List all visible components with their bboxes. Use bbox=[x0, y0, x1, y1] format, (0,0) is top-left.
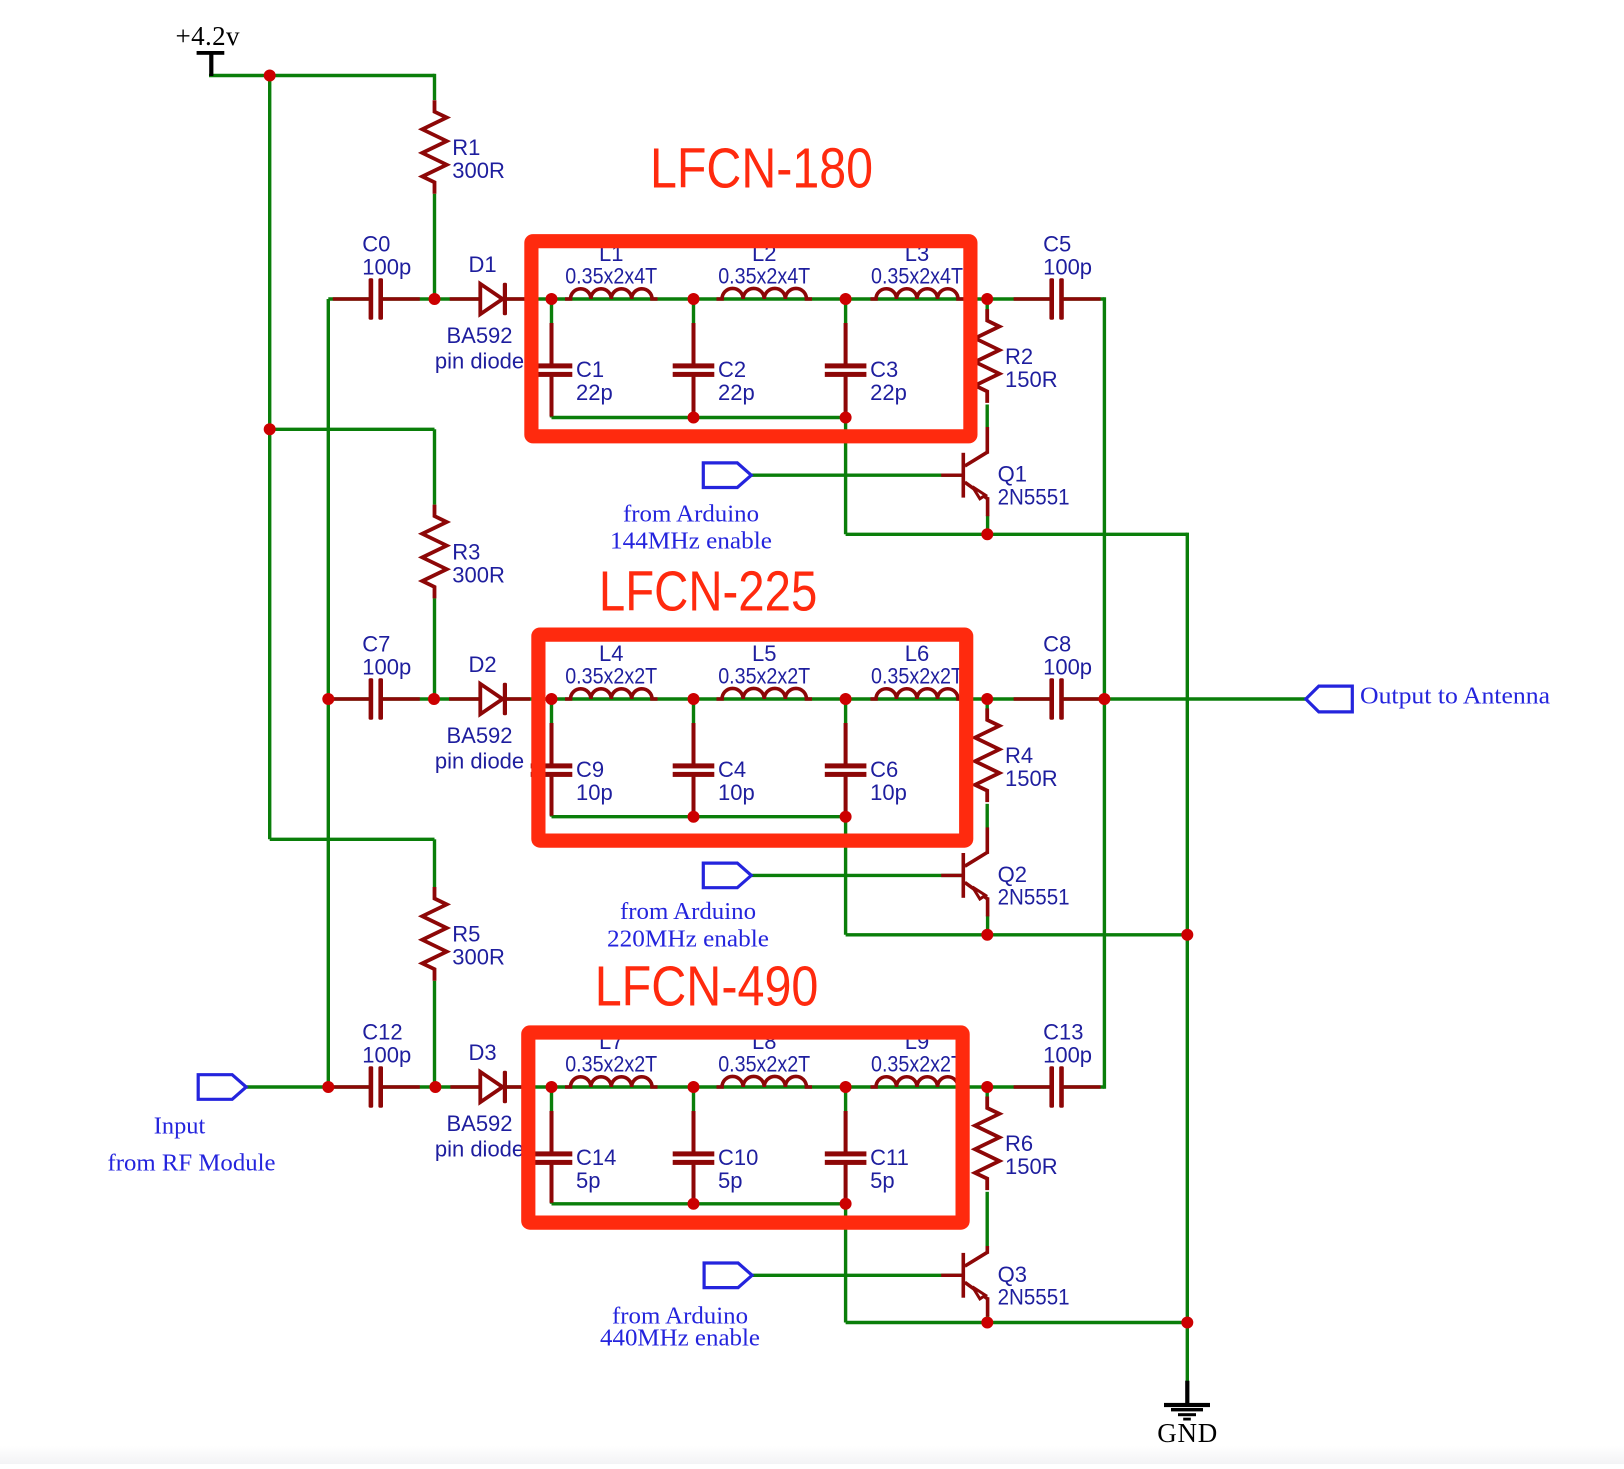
svg-text:0.35x2x2T: 0.35x2x2T bbox=[871, 1052, 963, 1077]
svg-text:R2: R2 bbox=[1005, 344, 1033, 369]
wire R5 bottom lead bbox=[433, 981, 436, 1087]
wire shunt cap stub row2 col1 bbox=[550, 699, 553, 765]
flag from Arduino 220MHz enable bbox=[703, 863, 751, 888]
svg-text:pin diode: pin diode bbox=[435, 349, 524, 374]
junction bbox=[688, 693, 700, 705]
ground GND bbox=[1164, 1381, 1210, 1421]
wire shunt cap stub row3 col1 bbox=[550, 1087, 553, 1153]
svg-text:100p: 100p bbox=[1043, 255, 1092, 280]
svg-text:220MHz enable: 220MHz enable bbox=[607, 926, 769, 952]
junction bbox=[688, 412, 700, 424]
label C14 5p bbox=[576, 1145, 616, 1193]
svg-text:LFCN-180: LFCN-180 bbox=[650, 137, 873, 201]
junction bbox=[264, 423, 276, 435]
junction bbox=[981, 1081, 993, 1093]
junction bbox=[546, 293, 558, 305]
svg-text:C3: C3 bbox=[870, 357, 898, 382]
svg-text:100p: 100p bbox=[362, 1043, 411, 1068]
label C4 10p bbox=[718, 757, 755, 805]
wire row 1 left segment bbox=[328, 297, 372, 300]
inductor L4 bbox=[565, 689, 658, 699]
svg-text:+4.2v: +4.2v bbox=[176, 21, 241, 51]
label C1 22p bbox=[576, 357, 613, 405]
page bottom shade bbox=[0, 1446, 1624, 1464]
capacitor C1 22p bbox=[531, 323, 573, 417]
svg-text:pin diode: pin diode bbox=[435, 749, 524, 774]
svg-text:BA592: BA592 bbox=[446, 723, 512, 748]
svg-text:0.35x2x2T: 0.35x2x2T bbox=[565, 1052, 657, 1077]
svg-text:C6: C6 bbox=[870, 757, 898, 782]
inductor L8 bbox=[717, 1076, 813, 1087]
label C9 10p bbox=[576, 757, 613, 805]
wire emitter row 2 bbox=[846, 933, 1188, 936]
label R6 150R bbox=[1005, 1131, 1058, 1179]
svg-text:0.35x2x2T: 0.35x2x2T bbox=[565, 664, 657, 689]
label R1 300R bbox=[452, 135, 505, 183]
wire collector column stubs 3 bbox=[986, 1087, 989, 1097]
svg-text:Output to Antenna: Output to Antenna bbox=[1360, 683, 1550, 709]
wire filter 2 ground rail bbox=[552, 815, 846, 818]
label C5 100p bbox=[1043, 232, 1092, 280]
capacitor C9 10p bbox=[531, 723, 573, 816]
label Q3 2N5551 bbox=[998, 1262, 1070, 1310]
resistor R5 300R bbox=[422, 887, 446, 981]
wire R5 top lead bbox=[433, 839, 436, 887]
inductor L5 bbox=[717, 688, 813, 699]
inductor L1 bbox=[565, 289, 658, 299]
svg-text:Input: Input bbox=[154, 1114, 206, 1140]
label R2 150R bbox=[1005, 344, 1058, 392]
label from Arduino 220MHz enable bbox=[607, 899, 769, 952]
junction bbox=[688, 1198, 700, 1210]
svg-text:440MHz enable: 440MHz enable bbox=[600, 1326, 760, 1352]
svg-text:R1: R1 bbox=[452, 135, 480, 160]
junction bbox=[322, 1081, 334, 1093]
svg-text:GND: GND bbox=[1157, 1418, 1217, 1448]
label L5 bbox=[718, 641, 810, 689]
junction bbox=[981, 528, 993, 540]
junction bbox=[688, 1081, 700, 1093]
svg-text:D1: D1 bbox=[468, 252, 496, 277]
wire shunt cap stub row2 col3 bbox=[844, 699, 847, 765]
svg-text:C7: C7 bbox=[362, 632, 390, 657]
junction bbox=[840, 693, 852, 705]
flag Output to Antenna bbox=[1306, 686, 1353, 712]
svg-text:0.35x2x4T: 0.35x2x4T bbox=[718, 264, 810, 289]
svg-text:from Arduino: from Arduino bbox=[623, 502, 759, 528]
transistor Q1 2N5551 bbox=[941, 427, 988, 516]
wire collector column stubs 2 bbox=[986, 699, 989, 709]
junction bbox=[1181, 929, 1193, 941]
junction bbox=[840, 811, 852, 823]
wire emitter stub 3 bbox=[986, 1315, 989, 1322]
label Q1 2N5551 bbox=[998, 462, 1070, 510]
label L3 bbox=[871, 241, 963, 289]
wire filter 3 rail drop bbox=[844, 1204, 847, 1323]
svg-text:10p: 10p bbox=[870, 780, 907, 805]
wire emitter row 3 bbox=[846, 1321, 1188, 1324]
transistor Q3 2N5551 bbox=[941, 1246, 988, 1316]
junction bbox=[981, 293, 993, 305]
wire power drop x=270 bbox=[268, 76, 271, 430]
capacitor C13 100p bbox=[1014, 1066, 1101, 1108]
capacitor C4 10p bbox=[673, 723, 715, 816]
wire input lead bbox=[246, 1085, 328, 1088]
junction bbox=[322, 693, 334, 705]
svg-text:C4: C4 bbox=[718, 757, 746, 782]
svg-text:C13: C13 bbox=[1043, 1020, 1083, 1045]
filter outline LFCN box 3 bbox=[528, 1033, 962, 1223]
wire filter 1 rail drop bbox=[844, 418, 847, 535]
label L7 bbox=[565, 1029, 657, 1077]
resistor R6 150R bbox=[975, 1097, 999, 1191]
svg-text:22p: 22p bbox=[718, 380, 755, 405]
label D1 BA592 pin diode bbox=[435, 252, 524, 374]
wire branch to R5 bbox=[270, 838, 435, 841]
wire base wire 2 bbox=[703, 874, 962, 877]
wire R3 top lead bbox=[433, 429, 436, 504]
wire filter 3 ground rail bbox=[552, 1202, 846, 1205]
label C11 5p bbox=[870, 1145, 909, 1193]
label L4 bbox=[565, 641, 657, 689]
wire row 2 left segment bbox=[328, 697, 372, 700]
svg-text:300R: 300R bbox=[452, 945, 505, 970]
svg-text:C11: C11 bbox=[870, 1145, 909, 1170]
svg-text:Q1: Q1 bbox=[998, 462, 1027, 487]
capacitor C6 10p bbox=[825, 723, 867, 816]
label C2 22p bbox=[718, 357, 755, 405]
junction bbox=[981, 929, 993, 941]
capacitor C14 5p bbox=[531, 1111, 573, 1203]
svg-text:L6: L6 bbox=[905, 641, 929, 666]
wire branch to R3 bbox=[270, 428, 435, 431]
capacitor C11 5p bbox=[825, 1111, 867, 1203]
wire row 3 left segment bbox=[328, 1085, 372, 1088]
svg-text:300R: 300R bbox=[452, 158, 505, 183]
junction bbox=[1181, 1317, 1193, 1329]
junction bbox=[688, 293, 700, 305]
svg-text:100p: 100p bbox=[362, 655, 411, 680]
svg-text:5p: 5p bbox=[576, 1168, 600, 1193]
junction bbox=[429, 293, 441, 305]
diode D2 BA592 bbox=[449, 683, 530, 715]
wire filter 2 rail drop bbox=[844, 817, 847, 935]
label C8 100p bbox=[1043, 632, 1092, 680]
capacitor C10 5p bbox=[673, 1111, 715, 1203]
wire +4.2v power rail bbox=[209, 74, 435, 77]
resistor R4 150R bbox=[975, 708, 999, 802]
svg-text:100p: 100p bbox=[1043, 1043, 1092, 1068]
label D2 BA592 pin diode bbox=[435, 652, 524, 774]
junction bbox=[840, 293, 852, 305]
wire row 2 main segment bbox=[380, 697, 1053, 700]
label L1 bbox=[565, 241, 657, 289]
svg-text:300R: 300R bbox=[452, 562, 505, 587]
svg-text:2N5551: 2N5551 bbox=[998, 885, 1070, 910]
wire row 1 main segment bbox=[380, 297, 1053, 300]
wire emitter stub 2 bbox=[986, 915, 989, 934]
capacitor C12 100p bbox=[333, 1066, 420, 1108]
flag from Arduino 144MHz enable bbox=[703, 463, 751, 488]
wire row 2 right segment bbox=[1061, 697, 1306, 700]
junction bbox=[546, 1081, 558, 1093]
junction bbox=[840, 412, 852, 424]
wire R1 bottom lead bbox=[433, 194, 436, 299]
wire base wire 1 bbox=[703, 474, 962, 477]
svg-text:BA592: BA592 bbox=[446, 323, 512, 348]
junction bbox=[688, 811, 700, 823]
wire left cap bus x=328 bbox=[327, 299, 330, 1087]
junction bbox=[1098, 693, 1110, 705]
svg-text:C14: C14 bbox=[576, 1145, 616, 1170]
wire collector column stubs 1 bbox=[986, 299, 989, 310]
svg-text:0.35x2x2T: 0.35x2x2T bbox=[718, 664, 810, 689]
svg-text:BA592: BA592 bbox=[446, 1111, 512, 1136]
resistor R1 300R bbox=[422, 100, 446, 194]
junction bbox=[546, 693, 558, 705]
junction bbox=[428, 693, 440, 705]
label from Arduino 440MHz enable bbox=[600, 1303, 760, 1351]
label L8 bbox=[718, 1029, 810, 1077]
svg-text:100p: 100p bbox=[1043, 655, 1092, 680]
svg-text:C5: C5 bbox=[1043, 232, 1071, 257]
svg-text:2N5551: 2N5551 bbox=[998, 484, 1070, 509]
label Q2 2N5551 bbox=[998, 862, 1070, 910]
resistor R2 150R bbox=[975, 309, 999, 403]
wire shunt cap stub row3 col2 bbox=[692, 1087, 695, 1153]
svg-text:R3: R3 bbox=[452, 539, 480, 564]
diode D1 BA592 bbox=[450, 283, 530, 315]
svg-text:pin diode: pin diode bbox=[435, 1137, 524, 1162]
junction bbox=[429, 1081, 441, 1093]
label C12 100p bbox=[362, 1020, 411, 1068]
label D3 BA592 pin diode bbox=[435, 1040, 524, 1162]
inductor L2 bbox=[717, 288, 813, 299]
svg-text:LFCN-225: LFCN-225 bbox=[599, 560, 817, 624]
label R3 300R bbox=[452, 539, 505, 587]
svg-text:10p: 10p bbox=[718, 780, 755, 805]
filter outline LFCN box 2 bbox=[538, 635, 966, 841]
svg-text:Q2: Q2 bbox=[998, 862, 1027, 887]
svg-text:5p: 5p bbox=[870, 1168, 894, 1193]
svg-text:C8: C8 bbox=[1043, 632, 1071, 657]
svg-text:5p: 5p bbox=[718, 1168, 742, 1193]
svg-text:from RF Module: from RF Module bbox=[108, 1151, 276, 1177]
svg-text:22p: 22p bbox=[870, 380, 907, 405]
svg-text:C1: C1 bbox=[576, 357, 604, 382]
svg-text:D2: D2 bbox=[468, 652, 496, 677]
label R4 150R bbox=[1005, 743, 1058, 791]
svg-text:R6: R6 bbox=[1005, 1131, 1033, 1156]
svg-text:100p: 100p bbox=[362, 255, 411, 280]
inductor L3 bbox=[871, 289, 964, 299]
wire emitter row 1 bbox=[846, 533, 1188, 536]
svg-text:from Arduino: from Arduino bbox=[620, 899, 756, 925]
wire R3 bottom lead bbox=[433, 598, 436, 699]
wire base wire 3 bbox=[704, 1274, 962, 1277]
label L6 bbox=[871, 641, 963, 689]
wire row 3 main segment bbox=[380, 1085, 1053, 1088]
svg-text:150R: 150R bbox=[1005, 367, 1058, 392]
inductor L9 bbox=[871, 1077, 964, 1087]
label C3 22p bbox=[870, 357, 907, 405]
junction bbox=[840, 1198, 852, 1210]
wire filter 1 ground rail bbox=[552, 416, 846, 419]
svg-text:10p: 10p bbox=[576, 780, 613, 805]
label from Arduino 144MHz enable bbox=[610, 502, 772, 555]
inductor L7 bbox=[565, 1077, 658, 1087]
wire emitter stub 1 bbox=[986, 515, 989, 534]
svg-text:C12: C12 bbox=[362, 1020, 402, 1045]
wire output column x=1104 bbox=[1103, 297, 1106, 1088]
label L9 bbox=[871, 1029, 963, 1077]
label L2 bbox=[718, 241, 810, 289]
svg-text:C2: C2 bbox=[718, 357, 746, 382]
svg-text:R5: R5 bbox=[452, 922, 480, 947]
capacitor C0 100p bbox=[333, 278, 420, 320]
svg-text:R4: R4 bbox=[1005, 743, 1033, 768]
diode D3 BA592 bbox=[450, 1071, 530, 1103]
filter outline LFCN box 1 bbox=[531, 241, 970, 436]
svg-text:0.35x2x2T: 0.35x2x2T bbox=[718, 1052, 810, 1077]
label C6 10p bbox=[870, 757, 907, 805]
junction bbox=[840, 1081, 852, 1093]
svg-text:C0: C0 bbox=[362, 232, 390, 257]
flag Input from RF Module bbox=[198, 1075, 246, 1100]
power symbol +4.2v bbox=[197, 51, 225, 76]
resistor R3 300R bbox=[422, 505, 446, 599]
svg-text:C9: C9 bbox=[576, 757, 604, 782]
wire shunt cap stub row1 col1 bbox=[550, 299, 553, 365]
svg-text:L5: L5 bbox=[752, 641, 776, 666]
svg-text:22p: 22p bbox=[576, 380, 613, 405]
label C10 5p bbox=[718, 1145, 758, 1193]
label C0 100p bbox=[362, 232, 411, 280]
svg-text:D3: D3 bbox=[468, 1040, 496, 1065]
svg-text:2N5551: 2N5551 bbox=[998, 1285, 1070, 1310]
svg-text:L4: L4 bbox=[599, 641, 623, 666]
capacitor C3 22p bbox=[825, 323, 867, 417]
svg-text:150R: 150R bbox=[1005, 1154, 1058, 1179]
label C13 100p bbox=[1043, 1020, 1092, 1068]
wire shunt cap stub row3 col3 bbox=[844, 1087, 847, 1153]
capacitor C5 100p bbox=[1014, 278, 1101, 320]
junction bbox=[981, 693, 993, 705]
wire row 3 right segment bbox=[1061, 1085, 1105, 1088]
svg-text:144MHz enable: 144MHz enable bbox=[610, 529, 772, 555]
svg-text:Q3: Q3 bbox=[998, 1262, 1027, 1287]
capacitor C7 100p bbox=[333, 678, 420, 720]
svg-text:150R: 150R bbox=[1005, 766, 1058, 791]
label C7 100p bbox=[362, 632, 411, 680]
flag from Arduino 440MHz enable bbox=[704, 1263, 752, 1288]
wire ground bus x=1187 bbox=[1186, 533, 1189, 1383]
capacitor C8 100p bbox=[1014, 678, 1101, 720]
inductor L6 bbox=[871, 689, 964, 699]
svg-text:0.35x2x2T: 0.35x2x2T bbox=[871, 664, 963, 689]
wire power rail to R1 bbox=[433, 74, 436, 100]
svg-text:LFCN-490: LFCN-490 bbox=[595, 955, 819, 1019]
wire shunt cap stub row2 col2 bbox=[692, 699, 695, 765]
svg-text:0.35x2x4T: 0.35x2x4T bbox=[871, 264, 963, 289]
junction bbox=[264, 70, 276, 82]
svg-text:C10: C10 bbox=[718, 1145, 758, 1170]
label R5 300R bbox=[452, 922, 505, 970]
wire shunt cap stub row1 col3 bbox=[844, 299, 847, 365]
junction bbox=[981, 1317, 993, 1329]
wire shunt cap stub row1 col2 bbox=[692, 299, 695, 365]
wire row 1 right segment bbox=[1061, 297, 1105, 300]
capacitor C2 22p bbox=[673, 323, 715, 417]
transistor Q2 2N5551 bbox=[941, 827, 988, 916]
svg-text:0.35x2x4T: 0.35x2x4T bbox=[565, 264, 657, 289]
wire power drop continues bbox=[268, 429, 271, 839]
